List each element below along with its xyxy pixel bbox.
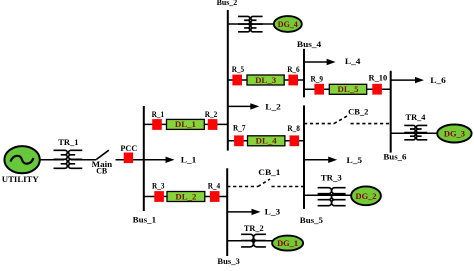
svg-text:TR_2: TR_2 xyxy=(244,223,264,233)
wire row Bus_2 to Bus_4 xyxy=(228,79,304,81)
line DL_2 xyxy=(167,192,205,202)
transformer for DG_4 xyxy=(238,16,263,31)
svg-text:R_4: R_4 xyxy=(208,180,221,190)
wire row Bus_2 to Bus_5 xyxy=(228,140,304,142)
transformer TR_3 xyxy=(318,188,346,206)
breaker R_1 xyxy=(152,119,162,130)
load arrow L_2 xyxy=(228,103,259,109)
node Bus_2 xyxy=(227,10,229,151)
tie switch CB_1 dashed wire left xyxy=(227,186,258,188)
generator DG_4 xyxy=(274,16,302,32)
wire Bus_6 to TR_4 xyxy=(391,132,438,134)
transformer TR_4 xyxy=(404,125,427,139)
tie switch CB_1 dashed wire right xyxy=(272,186,305,188)
wire Bus_2 to DG_4 transformer xyxy=(228,23,274,25)
svg-text:R_10: R_10 xyxy=(369,73,388,83)
tie switch CB_2 blade xyxy=(334,115,348,123)
breaker R_5 xyxy=(232,75,242,86)
load arrow L_6 xyxy=(391,77,424,83)
wire Main CB to Bus_1 xyxy=(116,159,144,161)
wire Bus_3 to TR_2 xyxy=(227,240,272,242)
node Bus_4 xyxy=(303,49,305,98)
breaker R_6 xyxy=(288,75,298,86)
load arrow L_5 xyxy=(304,157,337,163)
svg-text:DG_2: DG_2 xyxy=(356,191,377,201)
breaker R_10 xyxy=(372,84,382,95)
svg-text:UTILITY: UTILITY xyxy=(2,174,39,184)
line DL_3 xyxy=(247,75,284,85)
svg-text:CB: CB xyxy=(96,166,107,176)
svg-text:DG_4: DG_4 xyxy=(278,19,299,29)
svg-text:Bus_2: Bus_2 xyxy=(217,0,238,7)
transformer TR_1 xyxy=(54,150,83,168)
generator DG_2 xyxy=(351,186,381,205)
line DL_4 xyxy=(248,136,285,146)
breaker R_8 xyxy=(290,135,300,146)
svg-text:R_9: R_9 xyxy=(311,73,324,83)
wire Bus_5 to TR_3 xyxy=(304,194,352,196)
load arrow L_1 xyxy=(144,157,175,163)
breaker PCC xyxy=(124,153,133,164)
node Bus_5 xyxy=(303,105,305,208)
svg-text:L_4: L_4 xyxy=(345,56,361,66)
svg-text:R_3: R_3 xyxy=(152,180,165,190)
node Bus_3 xyxy=(226,168,228,256)
node Bus_6 xyxy=(390,71,392,153)
svg-text:Bus_1: Bus_1 xyxy=(133,215,156,225)
svg-text:DL_4: DL_4 xyxy=(256,137,277,146)
svg-text:L_5: L_5 xyxy=(347,155,363,165)
load arrow L_4 xyxy=(304,59,336,65)
svg-text:DL_1: DL_1 xyxy=(175,120,196,129)
generator DG_3 xyxy=(437,125,471,143)
svg-text:DL_5: DL_5 xyxy=(338,85,359,94)
svg-text:R_8: R_8 xyxy=(287,123,300,133)
svg-text:Bus_5: Bus_5 xyxy=(300,215,323,225)
transformer TR_2 xyxy=(241,234,266,247)
tie switch CB_2 dashed wire left xyxy=(304,123,334,125)
generator DG_1 xyxy=(272,236,303,251)
svg-text:L_1: L_1 xyxy=(181,154,197,164)
breaker R_9 xyxy=(314,84,324,95)
line DL_1 xyxy=(167,119,205,129)
svg-text:R_5: R_5 xyxy=(232,64,245,74)
wire row Bus_1 to Bus_3 xyxy=(144,196,227,198)
wire row Bus_1 to Bus_2 xyxy=(144,123,228,125)
breaker R_4 xyxy=(210,191,220,202)
svg-text:L_3: L_3 xyxy=(265,206,281,216)
svg-text:R_2: R_2 xyxy=(205,109,218,119)
svg-text:Bus_6: Bus_6 xyxy=(383,152,406,162)
svg-text:CB_1: CB_1 xyxy=(258,167,280,177)
breaker R_3 xyxy=(154,191,164,202)
node Bus_1 xyxy=(143,106,145,211)
utility source ellipse xyxy=(4,146,39,173)
tie switch CB_2 dashed wire right xyxy=(351,123,391,125)
breaker R_2 xyxy=(208,119,218,130)
svg-text:TR_4: TR_4 xyxy=(406,112,427,122)
breaker R_7 xyxy=(234,135,244,146)
tie switch CB_1 blade xyxy=(258,179,270,187)
svg-text:L_2: L_2 xyxy=(265,101,281,111)
svg-text:CB_2: CB_2 xyxy=(348,106,368,116)
svg-text:TR_1: TR_1 xyxy=(58,137,78,147)
svg-text:PCC: PCC xyxy=(120,143,137,153)
breaker Main CB blade xyxy=(96,150,109,159)
svg-text:Bus_4: Bus_4 xyxy=(297,39,322,49)
svg-text:R_1: R_1 xyxy=(152,109,165,119)
line DL_5 xyxy=(329,84,366,94)
svg-text:R_6: R_6 xyxy=(287,64,300,74)
svg-text:DG_1: DG_1 xyxy=(277,238,298,248)
load arrow L_3 xyxy=(227,209,260,215)
wire row Bus_4 to Bus_6 xyxy=(304,88,391,90)
svg-text:TR_3: TR_3 xyxy=(321,173,342,183)
svg-text:DL_3: DL_3 xyxy=(255,76,276,85)
svg-text:Bus_3: Bus_3 xyxy=(217,256,239,266)
svg-text:DG_3: DG_3 xyxy=(444,129,465,139)
svg-text:L_6: L_6 xyxy=(430,75,446,85)
svg-text:DL_2: DL_2 xyxy=(175,192,196,201)
utility sine symbol xyxy=(11,156,34,164)
svg-text:R_7: R_7 xyxy=(233,123,246,133)
wire utility to Main CB xyxy=(40,159,65,161)
